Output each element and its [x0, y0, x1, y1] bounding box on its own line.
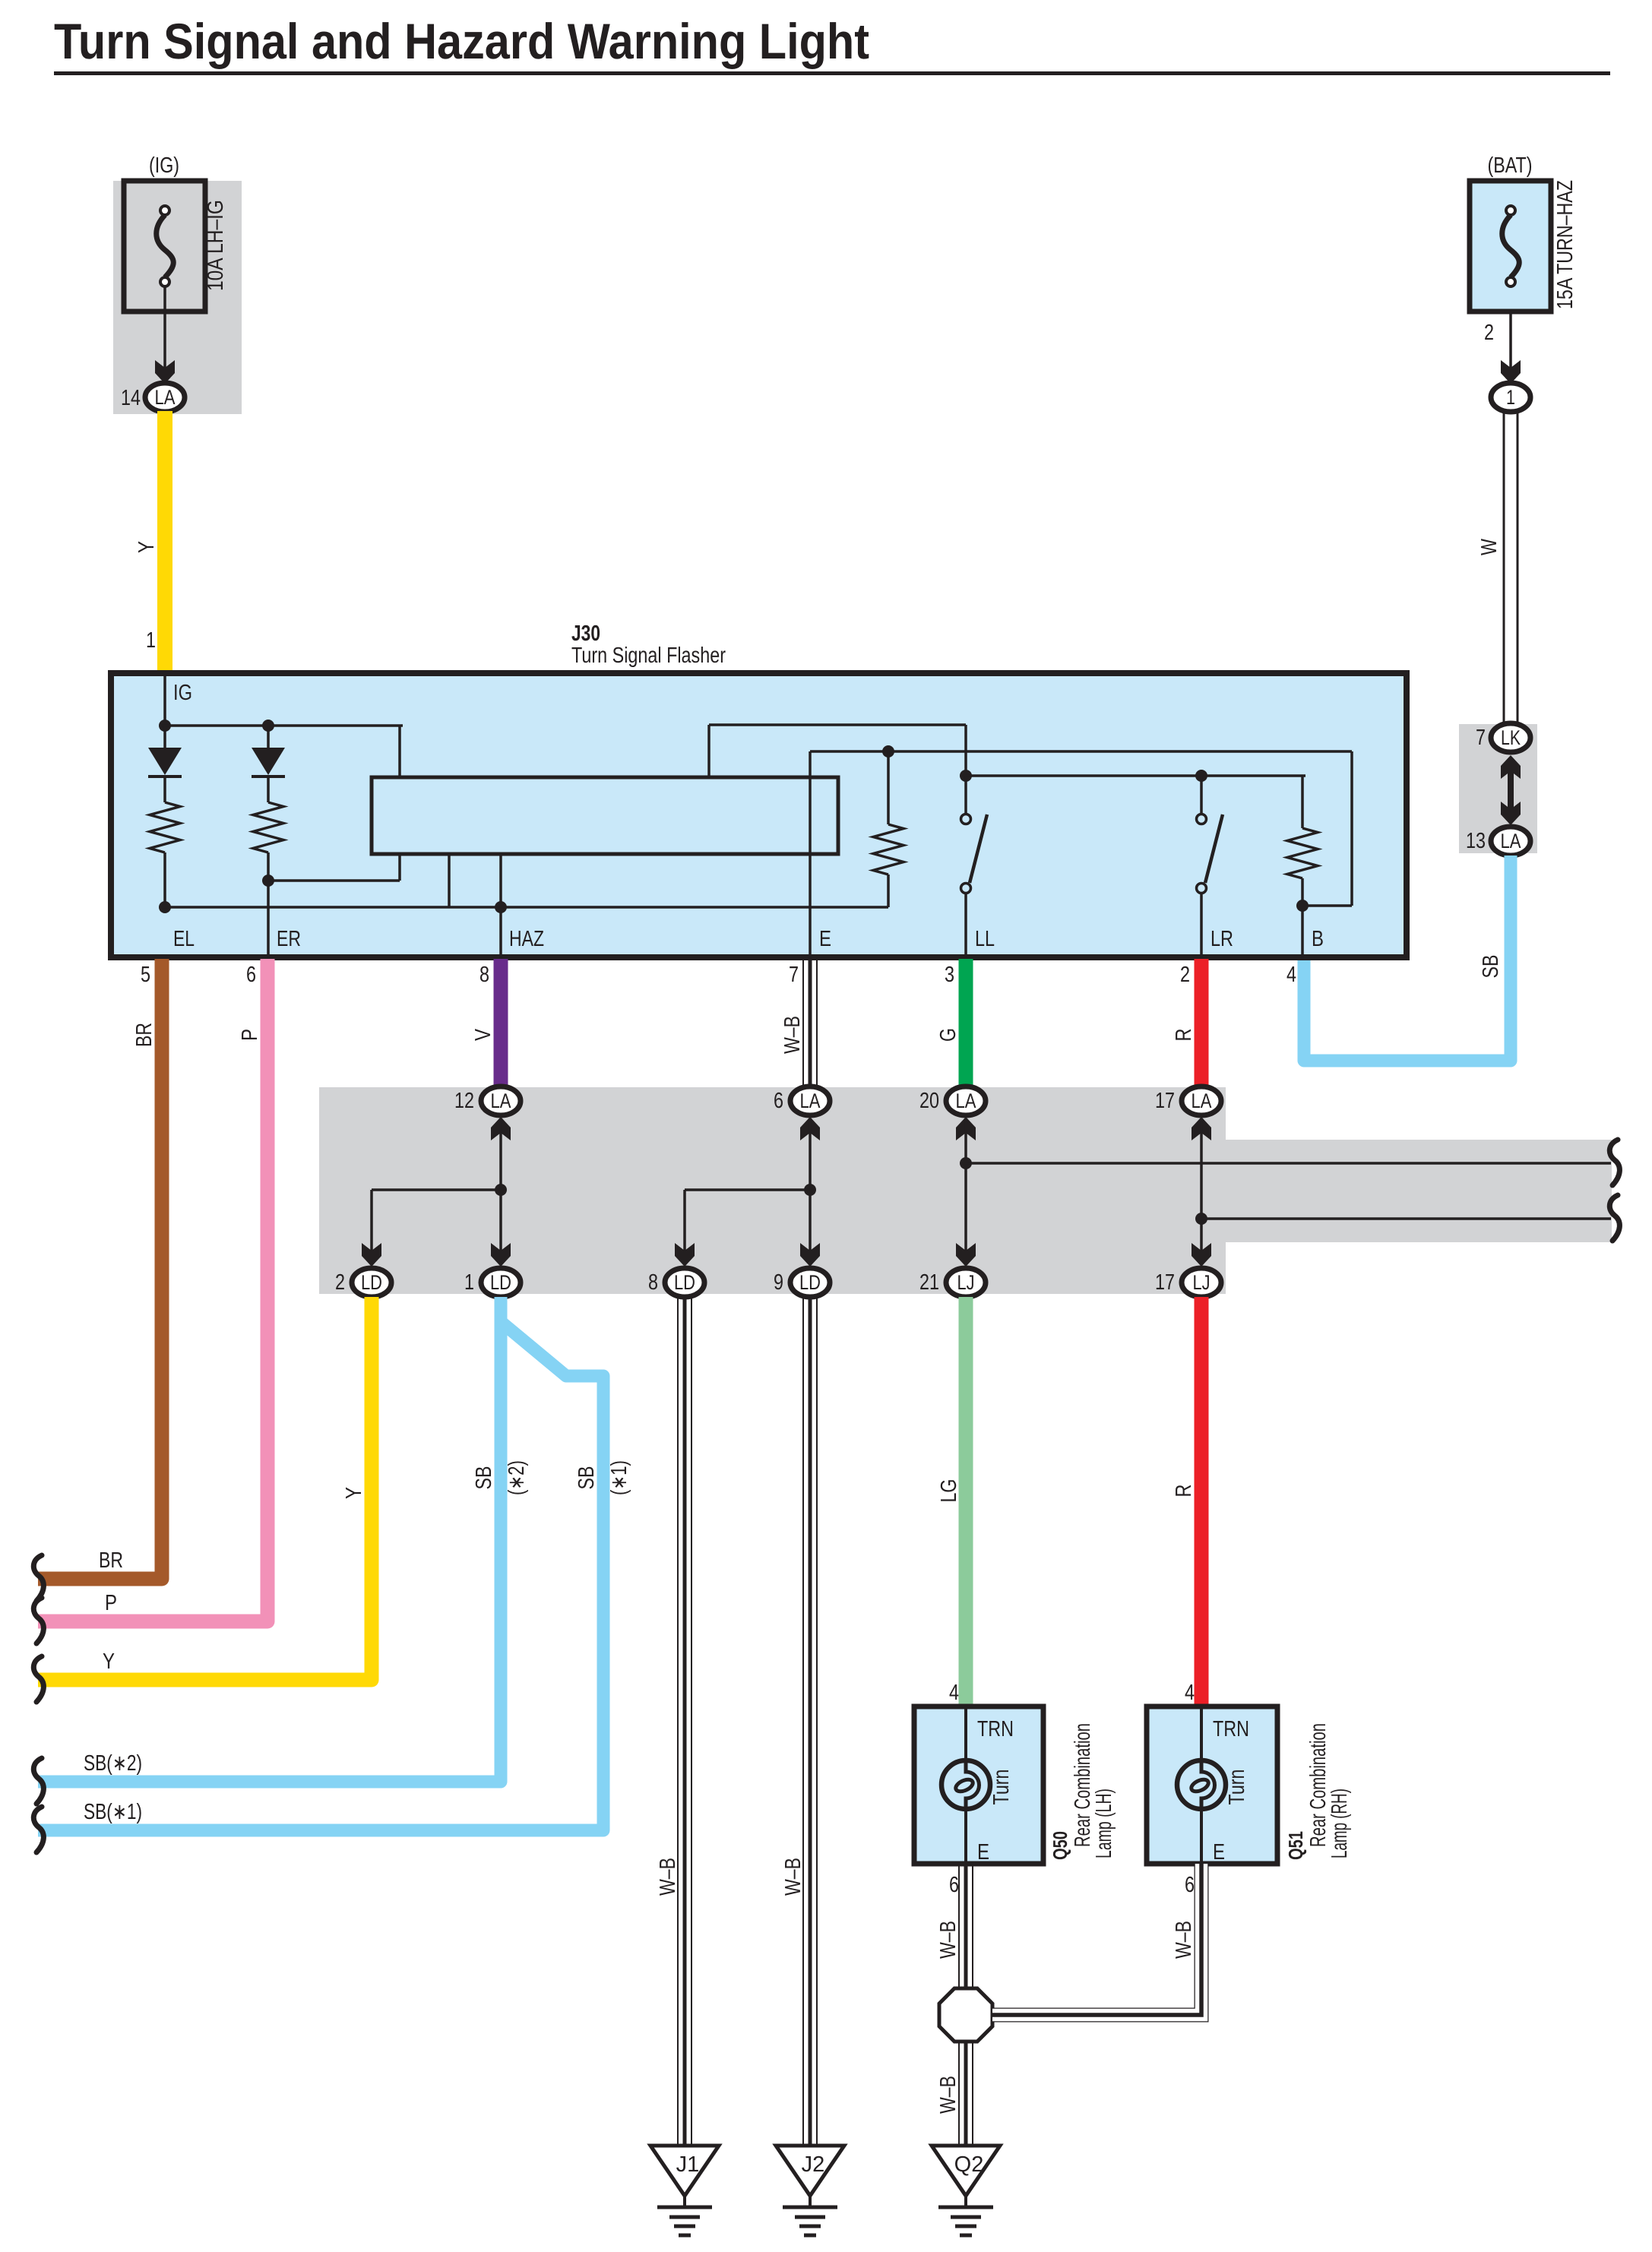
svg-text:13: 13 — [1466, 829, 1486, 853]
svg-text:LG: LG — [937, 1479, 961, 1503]
arrow into 17 LA — [1192, 1117, 1211, 1140]
svg-text:W–B: W–B — [781, 1858, 805, 1896]
svg-text:7: 7 — [789, 963, 799, 987]
resistor R1 (below D1) — [163, 776, 166, 802]
switch SW-LL — [960, 770, 972, 782]
connector 1 LD — [481, 1268, 521, 1297]
wire 6LA to LD branch — [809, 1118, 812, 1265]
wire LG from 21 LJ to Q50 — [959, 1297, 973, 1710]
svg-text:EL: EL — [173, 927, 195, 951]
connector 8 LD — [665, 1268, 704, 1297]
wire SB from J30 pin B to junction 13 LA — [1304, 856, 1511, 1061]
svg-text:5: 5 — [141, 963, 150, 987]
svg-text:SB(∗1): SB(∗1) — [84, 1800, 142, 1824]
svg-text:20: 20 — [919, 1089, 939, 1113]
wire 17LA to 17LJ — [1200, 1118, 1203, 1265]
svg-text:Y: Y — [135, 541, 159, 553]
svg-text:P: P — [105, 1591, 117, 1615]
diode D1 (left) — [163, 726, 166, 748]
fuse F1 10A LH-IG — [124, 181, 205, 312]
svg-text:LR: LR — [1211, 927, 1233, 951]
svg-text:LD: LD — [674, 1271, 695, 1294]
svg-text:6: 6 — [1185, 1873, 1195, 1897]
harness wire to right (from 17 LA) — [1201, 1217, 1611, 1220]
wire W-B from Q50 pin 6 to splice — [958, 1864, 960, 1990]
wire Y from 2 LD to break — [38, 1297, 372, 1680]
arrow into 8 LD — [675, 1243, 695, 1267]
connector 14 LA — [145, 383, 185, 412]
svg-text:P: P — [238, 1029, 262, 1041]
wire W-B from 8 LD to ground J1 — [677, 1297, 679, 2146]
wire 20LA to 21LJ — [964, 1118, 967, 1265]
svg-text:V: V — [471, 1028, 495, 1041]
svg-text:W–B: W–B — [1172, 1921, 1196, 1959]
node ER junction — [262, 875, 274, 887]
gray panel of junction connector — [1459, 724, 1537, 853]
svg-text:Turn Signal and Hazard Warning: Turn Signal and Hazard Warning Light — [54, 13, 869, 69]
svg-text:Turn Signal Flasher: Turn Signal Flasher — [571, 644, 726, 668]
J30 Turn Signal Flasher box — [111, 673, 1407, 957]
svg-text:R: R — [1172, 1485, 1196, 1498]
svg-text:SB: SB — [1479, 955, 1503, 979]
svg-text:6: 6 — [246, 963, 256, 987]
svg-text:B: B — [1312, 927, 1324, 951]
svg-text:E: E — [819, 927, 831, 951]
junction arrows between LK and LA — [1501, 755, 1521, 779]
svg-text:9: 9 — [774, 1270, 783, 1295]
svg-text:TRN: TRN — [1213, 1717, 1249, 1741]
wire from fuse to connector 1 — [1509, 312, 1512, 382]
svg-text:LD: LD — [799, 1271, 821, 1294]
fuse F2 15A TURN-HAZ — [1470, 181, 1551, 312]
svg-text:IG: IG — [173, 681, 192, 705]
connector 1 — [1491, 383, 1530, 412]
svg-text:W–B: W–B — [780, 1016, 805, 1054]
wire R from LR to 17 LA — [1195, 959, 1209, 1087]
harness wire to right (from 20 LA) — [966, 1162, 1611, 1165]
svg-text:LD: LD — [490, 1271, 511, 1294]
resistor R3 (E shunt) — [887, 751, 890, 824]
svg-text:1: 1 — [464, 1270, 474, 1295]
svg-text:Lamp (RH): Lamp (RH) — [1328, 1789, 1352, 1858]
svg-text:(IG): (IG) — [149, 153, 179, 178]
svg-text:4: 4 — [1185, 1681, 1195, 1705]
svg-text:(∗1): (∗1) — [607, 1460, 631, 1495]
wire from fuse to connector 14 LA — [163, 286, 166, 382]
svg-text:4: 4 — [949, 1681, 959, 1705]
svg-text:SB(∗2): SB(∗2) — [84, 1751, 142, 1776]
svg-text:J30: J30 — [571, 622, 600, 646]
wire E — [809, 751, 812, 959]
switch SW-LR — [1200, 776, 1203, 813]
bulb (turn) Q51 — [1177, 1760, 1226, 1809]
bulb (turn) Q50 — [942, 1760, 990, 1809]
wire V from HAZ to 12 LA — [494, 959, 508, 1088]
wire W from connector 1 to junction 7 LK — [1503, 411, 1505, 724]
svg-text:J2: J2 — [802, 2152, 825, 2177]
svg-text:SB: SB — [574, 1466, 599, 1490]
svg-text:(∗2): (∗2) — [505, 1460, 529, 1495]
connector 7 LK — [1491, 723, 1530, 752]
svg-text:LL: LL — [975, 927, 995, 951]
connector 9 LD — [790, 1268, 830, 1297]
svg-text:Q50: Q50 — [1049, 1831, 1071, 1860]
arrow into 17 LJ — [1192, 1243, 1211, 1267]
connector 17 LA — [1182, 1086, 1221, 1115]
lamp Q50 Rear Combination Lamp (LH) — [914, 1706, 1043, 1864]
wire SB from 1 LD to break (*2) — [38, 1297, 501, 1782]
connector 12 LA — [481, 1086, 521, 1115]
diode D2 (right) — [267, 726, 270, 748]
wire from relay box to LL switch — [707, 725, 710, 777]
svg-text:BR: BR — [99, 1548, 123, 1573]
connector 2 LD — [352, 1268, 391, 1297]
connector 21 LJ — [946, 1268, 986, 1297]
svg-text:2: 2 — [1484, 321, 1494, 345]
arrow into 6 LA — [800, 1117, 820, 1140]
svg-text:LA: LA — [1501, 830, 1521, 852]
ground J2 — [776, 2146, 844, 2196]
svg-text:14: 14 — [121, 386, 141, 410]
svg-text:21: 21 — [919, 1270, 939, 1295]
arrow into 2 LD — [362, 1243, 381, 1267]
svg-text:8: 8 — [648, 1270, 658, 1295]
arrow into 1 LD — [491, 1243, 511, 1267]
wire Y from fuse 14 LA to J30 IG — [157, 411, 172, 675]
svg-text:HAZ: HAZ — [509, 927, 544, 951]
wire LL-LR bus — [966, 774, 1305, 777]
svg-text:E: E — [1213, 1840, 1225, 1865]
svg-text:1: 1 — [146, 628, 156, 653]
svg-text:6: 6 — [949, 1873, 959, 1897]
arrow into 9 LD — [800, 1243, 820, 1267]
svg-text:LJ: LJ — [957, 1271, 975, 1294]
internal relay box — [372, 777, 838, 854]
svg-text:LA: LA — [956, 1090, 976, 1112]
resistor R2 (below D2) — [267, 776, 270, 802]
wire W-B from 9 LD to ground J2 — [802, 1297, 804, 2146]
connector 20 LA — [946, 1086, 986, 1115]
svg-text:LD: LD — [361, 1271, 382, 1294]
arrow into 21 LJ — [956, 1243, 976, 1267]
svg-text:LK: LK — [1501, 726, 1521, 749]
svg-text:Turn: Turn — [989, 1770, 1014, 1805]
svg-text:3: 3 — [945, 963, 954, 987]
harness gray band — [319, 1087, 1226, 1294]
svg-text:17: 17 — [1155, 1270, 1175, 1295]
connector 17 LJ — [1182, 1268, 1221, 1297]
svg-text:R: R — [1172, 1029, 1196, 1042]
wire G from LL to 20 LA — [959, 959, 973, 1087]
svg-text:Y: Y — [103, 1649, 115, 1674]
arrow into 12 LA — [491, 1117, 511, 1140]
svg-text:Q51: Q51 — [1284, 1831, 1307, 1860]
svg-text:17: 17 — [1155, 1089, 1175, 1113]
svg-text:LA: LA — [491, 1090, 511, 1112]
svg-text:W: W — [1477, 538, 1502, 555]
svg-text:W–B: W–B — [936, 2076, 961, 2114]
connector 6 LA — [790, 1086, 830, 1115]
svg-text:LA: LA — [1192, 1090, 1212, 1112]
wire 12LA to LD branch — [499, 1118, 502, 1265]
svg-text:15A TURN–HAZ: 15A TURN–HAZ — [1553, 180, 1578, 309]
svg-text:TRN: TRN — [977, 1717, 1014, 1741]
svg-text:6: 6 — [774, 1089, 783, 1113]
wire SB branch to break (*1) — [38, 1324, 603, 1830]
svg-text:W–B: W–B — [656, 1858, 680, 1896]
arrow into 20 LA — [956, 1117, 976, 1140]
svg-text:7: 7 — [1476, 726, 1486, 750]
svg-text:W–B: W–B — [936, 1921, 961, 1959]
svg-text:LA: LA — [155, 386, 176, 409]
gray panel behind fuse 10A LH-IG — [113, 181, 242, 414]
node EL junction — [159, 901, 171, 913]
connector 13 LA — [1491, 827, 1530, 856]
svg-text:2: 2 — [335, 1270, 345, 1295]
svg-text:12: 12 — [454, 1089, 474, 1113]
svg-text:Y: Y — [342, 1487, 366, 1499]
svg-text:J1: J1 — [676, 2152, 700, 2177]
wire EL bus — [162, 906, 888, 909]
svg-text:(BAT): (BAT) — [1488, 153, 1533, 178]
svg-text:Turn: Turn — [1225, 1770, 1249, 1805]
svg-text:G: G — [936, 1028, 961, 1042]
svg-text:4: 4 — [1286, 963, 1296, 987]
resistor R4 (B) — [1287, 828, 1318, 878]
splice octagon — [939, 1988, 992, 2042]
svg-text:8: 8 — [479, 963, 489, 987]
wire P from ER to break — [38, 959, 267, 1621]
svg-text:2: 2 — [1180, 963, 1190, 987]
wire inside J30: IG feed — [163, 675, 166, 726]
svg-text:ER: ER — [277, 927, 301, 951]
svg-text:Q2: Q2 — [954, 2152, 984, 2177]
wire BR from EL to break — [38, 959, 162, 1579]
svg-text:10A LH–IG: 10A LH–IG — [204, 200, 228, 291]
wire W-B from E to 6 LA — [802, 959, 804, 1087]
svg-text:E: E — [977, 1840, 989, 1865]
svg-text:BR: BR — [132, 1023, 157, 1047]
svg-text:SB: SB — [472, 1466, 496, 1490]
wire HAZ — [499, 854, 502, 959]
wire R from 17 LJ to Q51 — [1195, 1297, 1209, 1710]
svg-text:1: 1 — [1506, 386, 1515, 409]
wire W-B from splice to Q51 pin 6 — [992, 1864, 1201, 2015]
svg-text:LJ: LJ — [1193, 1271, 1211, 1294]
svg-text:LA: LA — [800, 1090, 821, 1112]
svg-text:Lamp (LH): Lamp (LH) — [1092, 1789, 1116, 1858]
wire W-B from splice to ground Q2 — [958, 2042, 960, 2146]
lamp Q51 Rear Combination Lamp (RH) — [1147, 1706, 1277, 1864]
ground Q2 — [932, 2146, 1000, 2196]
ground J1 — [650, 2146, 719, 2196]
